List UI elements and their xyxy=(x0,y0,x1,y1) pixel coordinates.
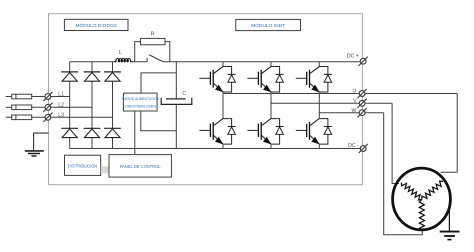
wire rectifier leg 2 xyxy=(91,62,93,149)
wire rectifier leg 1 xyxy=(69,62,71,149)
diode D4 (lower) xyxy=(61,128,78,137)
wire SMPS lead to capacitor bottom node xyxy=(141,111,177,131)
wire DC- bottom rail xyxy=(70,148,361,150)
fuse F2 xyxy=(12,105,32,110)
svg-text:C: C xyxy=(182,91,186,97)
diode D5 (lower) xyxy=(84,128,101,137)
wire inverter leg 2 middle xyxy=(270,92,272,119)
wire phase U output xyxy=(223,93,457,95)
wire inverter leg 1 bottom stub xyxy=(222,144,224,148)
wire phase V output xyxy=(271,102,392,104)
ground (motor frame) xyxy=(440,232,460,240)
transistor Q4 (bottom IGBT with freewheel diode) xyxy=(248,119,284,145)
wire inverter leg 3 middle xyxy=(318,92,320,119)
svg-text:CONMUTADAS (SMPS): CONMUTADAS (SMPS) xyxy=(123,105,157,109)
svg-text:MÓDULO IGBT: MÓDULO IGBT xyxy=(251,22,285,29)
switch S1 blade xyxy=(149,55,163,62)
motor M (stator circle) xyxy=(393,168,451,230)
wire U to motor (right vertical) xyxy=(441,94,458,173)
drive enclosure border xyxy=(49,14,363,185)
wire R right connector xyxy=(165,42,170,62)
resistor winding phase V (upper-left) xyxy=(402,183,422,201)
terminal DC- xyxy=(359,144,368,153)
wire inverter leg 3 bottom stub xyxy=(318,144,320,148)
svg-text:DISTRIBUCIÓN: DISTRIBUCIÓN xyxy=(68,163,97,168)
svg-text:DC +: DC + xyxy=(347,53,359,59)
wire input line L2 xyxy=(6,106,92,108)
diode D3 (upper) xyxy=(104,72,121,81)
transistor Q1 (top IGBT with freewheel diode) xyxy=(200,67,236,93)
wire W to motor bottom xyxy=(384,113,423,235)
svg-text:DC -: DC - xyxy=(348,143,359,149)
box PANEL DE CONTROL xyxy=(109,155,171,178)
wire SMPS top lead to DC+ node xyxy=(141,73,176,93)
wire R left connector xyxy=(135,42,141,62)
terminal W xyxy=(358,108,367,117)
svg-text:U: U xyxy=(352,89,356,95)
svg-text:W: W xyxy=(351,108,356,114)
svg-text:MÓDULO DIODOS: MÓDULO DIODOS xyxy=(76,22,117,29)
wire chassis ground tap xyxy=(34,133,49,150)
transistor Q5 (top IGBT with freewheel diode) xyxy=(296,67,332,93)
transistor Q3 (top IGBT with freewheel diode) xyxy=(248,67,284,93)
label box MODULO DIODOS xyxy=(64,19,128,30)
switch S1 contact post xyxy=(146,58,148,62)
box DISTRIBUCION xyxy=(65,155,101,175)
wire motor ground stem xyxy=(448,210,450,231)
svg-text:FUENTE ALIMENTACIÓN: FUENTE ALIMENTACIÓN xyxy=(122,96,160,101)
wire inverter leg 2 bottom stub xyxy=(270,144,272,148)
svg-text:V: V xyxy=(353,98,357,104)
inductor L xyxy=(114,59,132,62)
ground (chassis) xyxy=(25,151,44,156)
wire DC+ top rail (bridge to inductor) xyxy=(70,61,115,63)
resistor R xyxy=(141,38,166,44)
transistor Q2 (bottom IGBT with freewheel diode) xyxy=(200,119,236,145)
input breaker terminal L3 xyxy=(43,113,52,122)
capacitor C xyxy=(161,98,192,105)
input breaker terminal L1 xyxy=(43,92,52,101)
wire rectifier leg 3 xyxy=(112,62,114,149)
wire inverter leg 1 top stub xyxy=(222,62,224,67)
resistor winding phase W (bottom) xyxy=(419,200,424,232)
resistor winding phase U (upper-right) xyxy=(422,181,443,199)
box SMPS fuente alimentacion xyxy=(122,93,160,111)
diode D2 (upper) xyxy=(84,72,101,81)
svg-text:L2: L2 xyxy=(58,102,64,108)
diode D1 (upper) xyxy=(61,72,78,81)
input breaker terminal L2 xyxy=(43,103,52,112)
wire phase W output xyxy=(319,112,383,114)
wire DC+ rail (switch to DC+ terminal) xyxy=(163,61,361,63)
terminal U xyxy=(358,89,367,98)
label box MODULO IGBT xyxy=(236,19,301,30)
wire inverter leg 3 top stub xyxy=(318,62,320,67)
terminal DC+ xyxy=(359,57,368,66)
wire rail inductor to bypass switch xyxy=(131,61,147,63)
fuse F3 xyxy=(12,115,32,120)
wire V to motor (down at x=392) xyxy=(392,103,399,183)
terminal V xyxy=(358,99,367,108)
wire SMPS lead to DC- rail and control panel xyxy=(134,111,136,155)
connector distribucion to panel xyxy=(101,166,109,173)
wire inverter leg 2 top stub xyxy=(270,62,272,67)
wire capacitor bottom lead xyxy=(175,104,177,148)
transistor Q6 (bottom IGBT with freewheel diode) xyxy=(296,119,332,145)
diode D6 (lower) xyxy=(104,128,121,137)
svg-text:R: R xyxy=(151,31,155,37)
svg-text:L1: L1 xyxy=(58,92,64,98)
wire capacitor top lead xyxy=(175,62,177,99)
svg-text:PANEL DE CONTROL: PANEL DE CONTROL xyxy=(120,164,162,169)
wire inverter leg 1 middle xyxy=(222,92,224,119)
fuse F1 xyxy=(12,94,32,99)
svg-text:L: L xyxy=(119,50,122,56)
wire input line L3 xyxy=(6,116,113,118)
wire input line L1 xyxy=(6,96,70,98)
svg-text:L3: L3 xyxy=(58,112,64,118)
